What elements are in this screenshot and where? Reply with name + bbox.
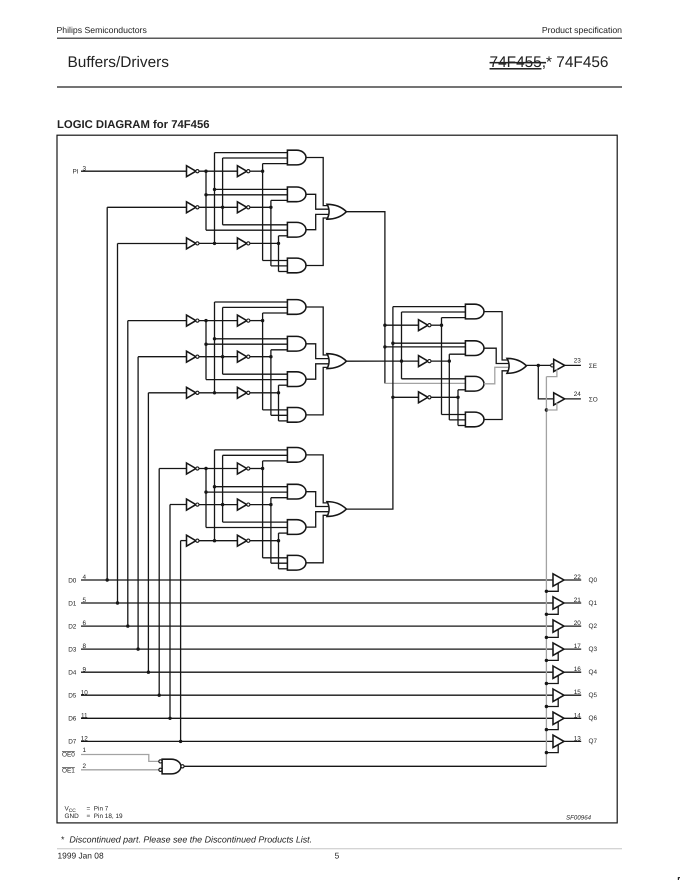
wire G1 AND2 in3 feed: [271, 199, 288, 201]
junction Q5 enable: [545, 705, 548, 708]
AND gate U6 input bubble A: [159, 760, 162, 763]
junction G1 v1 row1: [204, 170, 207, 173]
junction G2 v1 AND2: [204, 343, 207, 346]
wire G1 AND4 in3 feed: [279, 271, 288, 273]
svg-text:ΣE: ΣE: [589, 363, 597, 370]
wire final A1 in1 feed: [393, 306, 466, 308]
wire G3 AND4 in3 feed: [279, 568, 288, 570]
junction final t2: [448, 359, 451, 362]
svg-text:OE0: OE0: [62, 751, 75, 758]
driver Q0: [553, 574, 564, 586]
svg-text:Q3: Q3: [589, 646, 598, 653]
junction G1 v2 AND2: [213, 188, 216, 191]
svg-text:Q5: Q5: [589, 692, 598, 699]
wire D4 bus: [81, 671, 553, 673]
wire G2 AND4 in2 feed: [271, 414, 288, 416]
AND gate G2C1: [287, 300, 306, 315]
wire final A2 in2 feed: [385, 346, 466, 348]
svg-text:Q4: Q4: [589, 669, 598, 676]
AND gate G3C1: [287, 448, 306, 463]
AND gate U6 input bubble B: [159, 768, 162, 771]
wire final row1 true: [431, 324, 442, 326]
wire G2 row1 input segment: [199, 320, 238, 322]
inverter U2 final cell: [419, 356, 428, 367]
wire G3 row1 true segment: [250, 468, 263, 470]
OR gate U5: [507, 358, 526, 373]
wire G1 AND1 in2 feed: [223, 157, 288, 159]
inverter G3A3 bubble: [196, 539, 199, 542]
AND gate G2C3: [287, 372, 306, 387]
wire final row1 segment: [385, 324, 419, 326]
wire G1 AND3 out: [306, 214, 329, 229]
inverter G3A2: [187, 499, 196, 510]
junction G1 v2 row3: [213, 242, 216, 245]
wire IO enable tap gray: [546, 403, 557, 410]
junction D6 tap: [168, 717, 171, 720]
wire final v-or2 riser: [401, 312, 403, 379]
header rule top: [57, 37, 622, 39]
OR gate G2D: [327, 354, 346, 369]
wire D7 tap riser: [180, 541, 182, 742]
junction D1 tap: [116, 601, 119, 604]
wire D6 tap riser: [169, 505, 171, 719]
svg-text:Q0: Q0: [589, 577, 598, 584]
wire G1 AND3 in1 feed: [223, 224, 288, 226]
wire D5 tap riser: [158, 469, 160, 696]
wire G1 row1 true segment: [250, 170, 263, 172]
svg-text:OE1: OE1: [62, 767, 75, 774]
junction G2 t2 row2: [269, 355, 272, 358]
wire final A1 in2 feed: [402, 311, 466, 313]
svg-text:Q1: Q1: [589, 600, 598, 607]
inverter G3B2 bubble: [247, 503, 250, 506]
wire enable bus: [184, 765, 546, 767]
wire Q2 output: [564, 625, 581, 627]
wire D0 row feed: [107, 206, 186, 208]
inverter G1A2: [187, 202, 196, 213]
svg-text:21: 21: [574, 597, 582, 604]
wire G3 t3 riser: [278, 533, 280, 569]
wire G2 AND4 out: [306, 367, 330, 415]
wire G2 row2 input segment: [199, 356, 238, 358]
AND gate U4D: [465, 412, 484, 427]
wire final A3 in3 feed: [458, 389, 465, 391]
junction IO enable: [545, 408, 548, 411]
wire final A1 in3 feed: [442, 317, 466, 319]
junction G3 t1 row1: [261, 467, 264, 470]
wire Q6 output: [564, 717, 581, 719]
inverter U2 bubble: [428, 360, 431, 363]
wire final t1 riser: [441, 318, 443, 415]
wire G2 AND3 in3 feed: [279, 384, 288, 386]
wire D4 row feed: [148, 392, 186, 394]
svg-text:SF00964: SF00964: [566, 815, 592, 822]
svg-text:D4: D4: [68, 670, 77, 677]
wire OE0 input gray: [81, 755, 159, 762]
junction G1 t2 row2: [269, 206, 272, 209]
svg-text:D0: D0: [68, 577, 77, 584]
wire G2 v1 riser: [205, 321, 207, 380]
wire final t3 riser: [457, 390, 459, 426]
wire D4 tap riser: [147, 393, 149, 672]
AND gate G1C1: [287, 150, 306, 165]
junction G3 t2 row2: [269, 503, 272, 506]
wire G1 v1 riser: [205, 171, 207, 230]
junction or2 riser row2: [400, 359, 403, 362]
junction G3 v1 row1: [204, 467, 207, 470]
inverter U1 final cell: [419, 320, 428, 331]
wire final A1 out: [484, 312, 510, 360]
wire D0 bus: [81, 579, 553, 581]
wire G1 v2 riser: [214, 153, 216, 244]
junction Q1 enable: [545, 613, 548, 616]
inverter G1A3 bubble: [196, 242, 199, 245]
page corner mark: [678, 877, 680, 880]
junction Q7 enable: [545, 751, 548, 754]
junction G3 t3 row3: [277, 539, 280, 542]
svg-text:D5: D5: [68, 693, 77, 700]
inverter G2B1 bubble: [247, 319, 250, 322]
wire OR G1 output: [346, 212, 385, 384]
svg-text:15: 15: [574, 689, 582, 696]
wire D1 tap riser: [117, 244, 119, 604]
wire final A2 in3 feed: [449, 353, 465, 355]
wire Q3 output: [564, 648, 581, 650]
wire final A4 in3 feed: [458, 425, 465, 427]
junction G2 t3 row3: [277, 391, 280, 394]
wire final row3 segment: [393, 396, 419, 398]
junction G1 v3 row2: [221, 206, 224, 209]
inverter G1A1 bubble: [196, 170, 199, 173]
wire G1 AND1 in3 feed: [263, 163, 288, 165]
wire final row3 true: [431, 396, 458, 398]
inverter U3 final cell: [419, 392, 428, 403]
wire G2 AND3 in2 feed: [206, 379, 287, 381]
OR gate G3D: [327, 502, 346, 517]
junction G3 v3 row2: [221, 503, 224, 506]
svg-text:D3: D3: [68, 646, 77, 653]
wire G3 AND3 in3 feed: [279, 532, 288, 534]
wire D5 row feed: [159, 468, 186, 470]
svg-text:1: 1: [83, 747, 87, 754]
svg-text:ΣO: ΣO: [589, 397, 598, 404]
junction D5 tap: [158, 694, 161, 697]
svg-text:16: 16: [574, 666, 582, 673]
svg-text:D1: D1: [68, 600, 77, 607]
wire G2 row3 true segment: [250, 392, 279, 394]
junction G2 v3 row2: [221, 355, 224, 358]
wire final A4 in2 feed: [449, 419, 465, 421]
wire G1 AND3 in2 feed: [206, 229, 287, 231]
inverter G2B2: [237, 351, 246, 362]
inverter G3B3: [237, 535, 246, 546]
inverter G3B1 bubble: [247, 467, 250, 470]
junction OR1 net row1: [383, 324, 386, 327]
wire Q7 enable tap: [546, 745, 558, 753]
wire G2 row2 true segment: [250, 356, 271, 358]
junction Q0 enable: [545, 590, 548, 593]
inverter G2B3: [237, 387, 246, 398]
wire G3 AND2 out: [306, 492, 329, 507]
driver Q7: [553, 735, 564, 748]
driver Q5: [553, 689, 564, 702]
wire Q4 enable tap: [546, 676, 558, 684]
wire G2 t3 riser: [278, 385, 280, 421]
wire Q7 output: [564, 740, 581, 742]
junction G1 t1 row1: [261, 170, 264, 173]
inverter G1B1 bubble: [247, 170, 250, 173]
AND gate G2C2: [287, 336, 306, 351]
wire D3 row feed: [138, 356, 186, 358]
wire G3 AND1 in3 feed: [263, 460, 288, 462]
wire final A4 out: [484, 371, 510, 420]
wire D2 bus: [81, 625, 553, 627]
wire final A4 in1 feed: [442, 414, 466, 416]
wire IO output: [565, 398, 581, 400]
inverter G3A1 bubble: [196, 467, 199, 470]
inverter G1A2 bubble: [196, 206, 199, 209]
svg-text:24: 24: [574, 391, 582, 398]
wire D2 tap riser: [127, 321, 129, 626]
driver Q2: [553, 620, 564, 632]
wire G3 row3 input segment: [199, 540, 238, 542]
wire final A2 out: [484, 348, 509, 363]
wire G3 AND4 in2 feed: [271, 562, 288, 564]
wire G1 row1 input segment: [199, 170, 238, 172]
wire G2 AND4 in3 feed: [279, 420, 288, 422]
AND gate U4B: [465, 341, 484, 356]
wire D6 row feed: [170, 504, 187, 506]
driver Q3: [553, 643, 564, 656]
junction Q3 enable: [545, 659, 548, 662]
wire G1 AND2 in1 feed: [215, 188, 288, 190]
wire PI input: [81, 170, 187, 172]
wire G1 row2 input segment: [199, 206, 238, 208]
wire G3 AND1 in1 feed: [215, 449, 288, 451]
junction D7 tap: [179, 740, 182, 743]
driver IE: [554, 359, 565, 371]
wire G3 AND2 in1 feed: [215, 486, 288, 488]
wire G1 v3 riser: [222, 158, 224, 225]
inverter G2A3 bubble: [196, 391, 199, 394]
wire G3 AND1 in2 feed: [223, 454, 288, 456]
driver Q1: [553, 597, 564, 609]
junction Q2 enable: [545, 636, 548, 639]
wire G3 v3 riser: [222, 455, 224, 522]
junction G1 v1 AND2: [204, 193, 207, 196]
wire final t2 riser: [448, 354, 450, 420]
wire G3 AND3 in1 feed: [223, 521, 288, 523]
driver Q4: [553, 666, 564, 678]
wire G1 AND3 in3 feed: [279, 235, 288, 237]
svg-text:Buffers/Drivers: Buffers/Drivers: [68, 54, 170, 71]
wire Q0 output: [564, 579, 581, 581]
inverter G3B2: [237, 499, 246, 510]
junction D3 tap: [136, 647, 139, 650]
wire D3 tap riser: [137, 357, 139, 649]
junction Q4 enable: [545, 682, 548, 685]
inverter G1B2: [237, 202, 246, 213]
wire Q1 output: [564, 602, 581, 604]
svg-text:Q7: Q7: [589, 738, 598, 745]
svg-text:Q2: Q2: [589, 623, 598, 630]
wire G1 t1 riser: [262, 164, 264, 261]
inverter G1B1: [237, 166, 246, 177]
wire final A2 in1 feed: [393, 342, 466, 344]
svg-text:17: 17: [574, 643, 582, 650]
junction G3 v1 AND2: [204, 490, 207, 493]
wire Q0 enable tap: [546, 583, 558, 591]
junction final t1: [440, 324, 443, 327]
wire G3 AND1 out: [306, 455, 330, 503]
wire G1 AND2 in2 feed: [206, 194, 287, 196]
inverter G2A1 bubble: [196, 319, 199, 322]
AND gate G1C4: [287, 258, 306, 273]
svg-text:D7: D7: [68, 739, 77, 746]
junction D4 tap: [147, 671, 150, 674]
wire D2 row feed: [128, 320, 187, 322]
OR gate G1D: [327, 204, 346, 219]
wire D6 bus: [81, 717, 553, 719]
driver IE bubble: [551, 364, 554, 367]
wire G3 t1 riser: [262, 461, 264, 558]
svg-text:Q6: Q6: [589, 715, 598, 722]
diagram frame: [57, 135, 617, 823]
svg-text:22: 22: [574, 574, 582, 581]
wire G3 AND4 out: [306, 515, 330, 563]
svg-text:Philips Semiconductors: Philips Semiconductors: [57, 25, 148, 35]
wire G2 AND2 out: [306, 344, 329, 359]
wire G2 row1 true segment: [250, 320, 263, 322]
wire OE1 input gray: [81, 769, 159, 771]
AND gate U6 output bubble: [181, 765, 184, 768]
wire G1 t3 riser: [278, 236, 280, 272]
svg-text:5: 5: [335, 851, 340, 861]
wire G3 AND4 in1 feed: [263, 557, 288, 559]
wire G3 row3 true segment: [250, 540, 279, 542]
wire final A3 in2 feed gray: [385, 382, 466, 384]
svg-text:23: 23: [574, 358, 582, 365]
svg-text:* Discontinued part. Please s: * Discontinued part. Please see the Disc…: [61, 834, 312, 844]
junction D0 tap: [106, 578, 109, 581]
wire G1 AND4 in1 feed: [263, 260, 288, 262]
wire D3 bus: [81, 648, 553, 650]
wire G2 AND4 in1 feed: [263, 409, 288, 411]
wire Q6 enable tap: [546, 722, 558, 730]
wire G2 AND1 in1 feed: [215, 301, 288, 303]
wire G2 AND3 in1 feed: [223, 373, 288, 375]
inverter G2A2 bubble: [196, 355, 199, 358]
header rule bottom: [57, 86, 622, 88]
AND gate G2C4: [287, 408, 306, 423]
wire Q3 enable tap: [546, 652, 558, 660]
junction G2 v2 row3: [213, 391, 216, 394]
wire G1 AND4 in2 feed: [271, 265, 288, 267]
inverter G1B2 bubble: [247, 206, 250, 209]
junction IE/IO node: [537, 364, 540, 367]
wire G2 AND1 in3 feed: [263, 312, 288, 314]
wire G1 AND4 out: [306, 218, 330, 266]
svg-text:GND=Pin 18, 19: GND=Pin 18, 19: [65, 813, 124, 820]
junction OR3 net row3: [391, 396, 394, 399]
wire G2 AND2 in1 feed: [215, 338, 288, 340]
wire G3 row2 input segment: [199, 504, 238, 506]
wire Q1 enable tap: [546, 606, 558, 614]
AND gate U4A: [465, 304, 484, 319]
inverter G3A3: [187, 535, 196, 546]
wire OR G2 output: [346, 360, 418, 362]
AND gate U6 enable: [162, 759, 181, 774]
wire Q2 enable tap: [546, 629, 558, 637]
junction final t3: [456, 396, 459, 399]
wire G3 AND3 out: [306, 512, 329, 527]
wire G3 row2 true segment: [250, 504, 271, 506]
junction G1 t3 row3: [277, 242, 280, 245]
wire OR U5 output: [526, 364, 551, 366]
wire G1 row3 input segment: [199, 242, 238, 244]
wire G2 v3 riser: [222, 307, 224, 374]
junction G3 v2 AND2: [213, 485, 216, 488]
svg-text:74F455,* 74F456: 74F455,* 74F456: [490, 54, 609, 71]
inverter G3B1: [237, 463, 246, 474]
inverter G2A2: [187, 351, 196, 362]
wire D5 bus: [81, 694, 553, 696]
inverter G3A2 bubble: [196, 503, 199, 506]
wire final row2 true: [431, 360, 449, 362]
junction G2 t1 row1: [261, 319, 264, 322]
svg-text:Product specification: Product specification: [542, 25, 622, 35]
wire G1 row2 true segment: [250, 206, 271, 208]
wire final A3 out gray: [484, 367, 509, 384]
AND gate G3C4: [287, 555, 306, 570]
wire D1 row feed: [118, 243, 187, 245]
svg-text:14: 14: [574, 712, 582, 719]
wire G2 AND1 out: [306, 307, 330, 355]
wire G3 v2 riser: [214, 450, 216, 541]
wire D0 tap riser: [106, 207, 108, 580]
wire G3 t2 riser: [270, 498, 272, 564]
inverter G3B3 bubble: [247, 539, 250, 542]
svg-text:20: 20: [574, 620, 582, 627]
wire G2 v2 riser: [214, 302, 216, 393]
wire G1 t2 riser: [270, 200, 272, 266]
inverter U3 bubble: [428, 396, 431, 399]
wire G2 t2 riser: [270, 350, 272, 416]
inverter G2A1: [187, 315, 196, 326]
wire IO branch: [538, 365, 553, 399]
driver IO: [554, 393, 565, 405]
svg-text:LOGIC DIAGRAM for 74F456: LOGIC DIAGRAM for 74F456: [57, 119, 210, 131]
inverter G2B1: [237, 315, 246, 326]
inverter G1A3: [187, 238, 196, 249]
wire Q4 output: [564, 671, 581, 673]
svg-text:13: 13: [574, 735, 582, 742]
wire IE enable tap gray: [546, 369, 557, 376]
inverter U1 bubble: [428, 324, 431, 327]
AND gate G1C3: [287, 222, 306, 237]
inverter G3A1: [187, 463, 196, 474]
svg-text:1999 Jan 08: 1999 Jan 08: [58, 851, 104, 861]
wire G3 v1 riser: [205, 469, 207, 528]
wire final A3 in1 feed: [402, 378, 466, 380]
inverter G2A3: [187, 387, 196, 398]
wire G2 AND2 in2 feed: [206, 343, 287, 345]
wire enable riser gray: [545, 377, 547, 767]
inverter G1B3: [237, 238, 246, 249]
AND gate G1C2: [287, 187, 306, 202]
AND gate G3C2: [287, 484, 306, 499]
junction G3 v2 row3: [213, 539, 216, 542]
